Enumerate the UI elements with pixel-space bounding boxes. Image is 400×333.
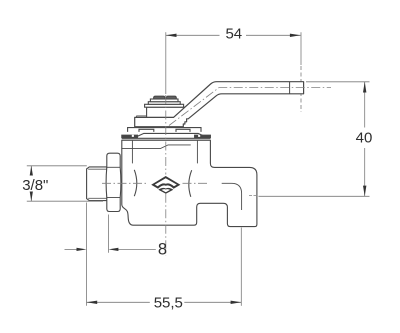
svg-text:8: 8 bbox=[158, 240, 167, 258]
vertical stem centerline upper bbox=[165, 95, 167, 175]
handle grip inner line bbox=[289, 82, 291, 94]
outlet small dashes bbox=[249, 195, 256, 197]
arrow 3/8 top bbox=[30, 166, 33, 176]
right flange lip bbox=[195, 135, 211, 138]
bonnet seam right bbox=[196, 141, 198, 163]
left flange lip bbox=[122, 135, 138, 138]
threaded nipple bbox=[87, 167, 107, 201]
right seat arc bbox=[189, 170, 192, 197]
dim 54 line bbox=[166, 34, 301, 36]
svg-text:40: 40 bbox=[356, 129, 373, 146]
handle lever with base plate bbox=[135, 82, 304, 127]
dim 54 extension right bbox=[300, 32, 302, 65]
left seat arc bbox=[134, 170, 137, 196]
svg-text:55,5: 55,5 bbox=[154, 294, 183, 311]
stem nut left facet bbox=[154, 96, 165, 99]
nipple thread relief top bbox=[88, 168, 107, 170]
svg-text:54: 54 bbox=[225, 25, 242, 42]
stem nut right facet bbox=[166, 96, 176, 99]
flange top line bbox=[122, 137, 211, 139]
arrow 54 left bbox=[166, 34, 177, 37]
nipple thread relief bottom bbox=[88, 197, 107, 199]
dim 8 ext right bbox=[107, 215, 109, 253]
bonnet seam left bbox=[131, 141, 133, 163]
hex facet line upper bbox=[107, 166, 120, 168]
internal elbow passage bbox=[222, 183, 242, 210]
arrow 8 right (points left) bbox=[108, 248, 118, 251]
dim 40 ext top bbox=[306, 81, 370, 83]
dim 8 line left tail bbox=[65, 248, 78, 250]
dim 8 ext left shared 55,5 bbox=[86, 203, 88, 306]
hex facet line lower bbox=[107, 197, 120, 199]
dim 3/8 ext top bbox=[27, 165, 87, 167]
arrow 54 right bbox=[290, 34, 301, 37]
dim 54 extension left bbox=[165, 32, 167, 94]
dim 40 line bbox=[364, 82, 366, 197]
packing washer wide bbox=[128, 128, 201, 132]
vertical stem centerline lower bbox=[165, 194, 167, 256]
arrow 8 left (points right) bbox=[77, 248, 87, 251]
hex nut bbox=[106, 153, 121, 211]
plate top ledge bbox=[137, 116, 147, 118]
dim 40 ext bottom bbox=[259, 195, 370, 197]
bonnet hump line bbox=[138, 133, 205, 136]
dim 3/8 ext bottom bbox=[27, 200, 103, 202]
dim 55,5 line bbox=[87, 301, 242, 303]
arrow 3/8 bottom bbox=[30, 192, 33, 202]
dim 55,5 ext right bbox=[240, 228, 242, 306]
horizontal port centerline left bbox=[102, 182, 148, 184]
arrow 55,5 right bbox=[231, 301, 242, 304]
logo upper chevron bbox=[151, 176, 180, 189]
horizontal port centerline right bbox=[183, 182, 210, 184]
arrow 40 top bbox=[363, 82, 366, 93]
logo lower heart bbox=[158, 188, 173, 194]
dim 54 hidden extension through handle end bbox=[300, 66, 302, 112]
arrow 55,5 left bbox=[87, 301, 98, 304]
flange bottom line bbox=[122, 139, 211, 141]
boss left bbox=[139, 129, 154, 132]
gland layer 1 bbox=[147, 107, 186, 117]
dim 3/8 line bbox=[30, 166, 32, 201]
washer layer 2 bbox=[145, 104, 184, 107]
body main outline bbox=[122, 140, 257, 226]
svg-text:3/8": 3/8" bbox=[22, 177, 48, 194]
arrow 40 bottom bbox=[363, 186, 366, 197]
dim 8 line right tail bbox=[118, 248, 156, 250]
handle axis centerline bbox=[169, 88, 331, 126]
boss right bbox=[176, 129, 190, 132]
layer 4 bbox=[150, 99, 178, 102]
layer 3 bbox=[148, 102, 180, 105]
internal casting step line bbox=[122, 145, 191, 149]
